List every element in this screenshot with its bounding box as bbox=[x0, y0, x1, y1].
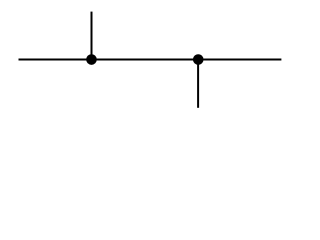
wire horizontal main bbox=[19, 59, 282, 61]
wire right vertical stub bbox=[197, 60, 199, 108]
junction node left bbox=[86, 54, 97, 65]
wire left vertical stub bbox=[91, 12, 93, 60]
junction node right bbox=[193, 54, 204, 65]
